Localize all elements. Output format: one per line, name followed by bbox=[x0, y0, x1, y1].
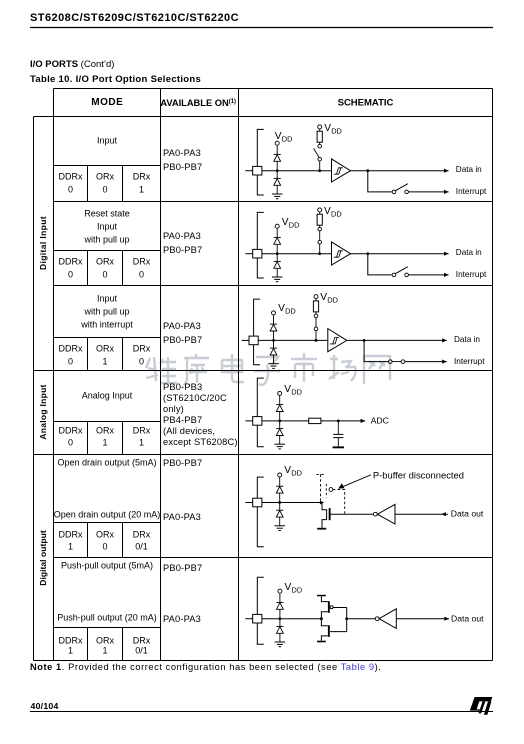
row2 pull-up resistor: wire to pad line bbox=[319, 244, 321, 254]
N-buffer output transistor Q1 (NMOS) bbox=[322, 503, 327, 510]
open-drain pin: pad square bbox=[253, 498, 262, 507]
analog pin: pin bracket bbox=[257, 378, 264, 447]
node: gate junction dot bbox=[345, 617, 348, 620]
row1 pin: wire stub to pad bbox=[245, 170, 252, 172]
wire: pad to series resistor bbox=[262, 420, 309, 422]
PMOS gate wire bbox=[333, 607, 347, 609]
arrow to Interrupt (row 2) bbox=[444, 273, 449, 277]
row2 pin: pad square bbox=[253, 249, 262, 258]
row1 ESD diodes: wire VDD to upper diode bbox=[276, 145, 278, 154]
open-drain ESD diodes: wire VDD to upper diode bbox=[279, 477, 281, 486]
inverter U2 driving output gates bbox=[375, 617, 379, 621]
row3 pull-up resistor: wire to pad line bbox=[315, 331, 317, 341]
row2 pull-up resistor: wire bbox=[319, 225, 321, 227]
row3 pull-up resistor: junction dot bbox=[315, 339, 318, 342]
push-pull ESD diodes: junction dot on pad line bbox=[279, 617, 282, 620]
series resistor to ADC bbox=[309, 418, 321, 423]
row1 ESD diodes: VDD supply circle bbox=[275, 141, 279, 145]
disconnected P-buffer (dashed PMOS) bbox=[316, 474, 324, 500]
wire: pad line to NMOS drain bbox=[262, 502, 321, 504]
row3 pull-up resistor: VDD supply circle bbox=[314, 295, 318, 299]
sub-column separators bbox=[87, 166, 89, 202]
row3 ESD diodes: wire diode to pad line bbox=[273, 331, 275, 348]
arrow to Interrupt (row 1) bbox=[444, 190, 449, 194]
row2 pull-up resistor: wire bbox=[319, 212, 321, 215]
open-drain ESD diodes: ground symbol bbox=[274, 525, 285, 527]
capacitor ground bar bbox=[333, 446, 344, 448]
row3 pull-up resistor: wire bbox=[315, 298, 317, 301]
push-pull ESD diodes: wire diode to pad line bbox=[279, 609, 281, 626]
row3 interrupt switch: interrupt switch contact circles bbox=[389, 360, 393, 364]
wire: Data out to inverter bbox=[396, 618, 449, 620]
analog ESD diodes: junction dot on pad line bbox=[278, 420, 281, 423]
row3 ESD diodes: ground symbol bbox=[268, 363, 279, 365]
node: data/interrupt branch junction (row 1) bbox=[366, 169, 369, 172]
open-drain ESD diodes: upper protection diode to VDD bbox=[276, 485, 283, 487]
PMOS Q2 channel bar bbox=[328, 601, 330, 613]
row3 pin: pad square bbox=[249, 336, 258, 345]
analog pin: pad square bbox=[253, 417, 262, 426]
push-pull ESD diodes: lower protection diode to ground bbox=[276, 625, 283, 627]
ground rail bar bbox=[317, 641, 326, 643]
row1 pull-up resistor: switch contact circle (top) bbox=[318, 144, 322, 148]
row1 ESD diodes: junction dot on pad line bbox=[276, 169, 279, 172]
title underline bbox=[30, 27, 493, 29]
open-drain pin: pin bracket bbox=[257, 477, 264, 547]
watermark (decorative, approximated) bbox=[146, 353, 390, 386]
row1 pull-up resistor: wire bbox=[319, 129, 321, 132]
row2 pin: pin bracket bbox=[257, 212, 264, 278]
gate bus vertical wire bbox=[346, 608, 348, 632]
arrow to Interrupt (row 3) bbox=[442, 360, 447, 364]
row3 input buffer: Schmitt trigger buffer bbox=[328, 329, 347, 352]
row2 pull-up resistor: switch contact circle (top) bbox=[318, 227, 322, 231]
P-buffer gate bubble bbox=[329, 488, 333, 492]
wire: pad to buffer input (row 3) bbox=[258, 339, 328, 341]
row1 pin: pin bracket bbox=[257, 129, 264, 195]
row3 ESD diodes: upper protection diode to VDD bbox=[270, 323, 277, 325]
open-drain pin: wire stub to pad bbox=[245, 502, 252, 504]
row2 ESD diodes: wire diode to pad line bbox=[276, 244, 278, 261]
row2 ESD diodes: lower protection diode to ground bbox=[274, 260, 281, 262]
row3 ESD diodes: wire VDD to upper diode bbox=[273, 315, 275, 324]
wire: switch to Interrupt (row 2) bbox=[408, 274, 448, 276]
analog ESD diodes: upper protection diode to VDD bbox=[276, 404, 283, 406]
wire: buffer output to Data in (row 1) bbox=[351, 170, 449, 172]
row1 ESD diodes: lower protection diode to ground bbox=[274, 177, 281, 179]
row2 interrupt switch: open blade bbox=[395, 267, 407, 274]
row1 pull-up resistor: VDD supply circle bbox=[318, 125, 322, 129]
row3 pull-up resistor: wire bbox=[315, 312, 317, 314]
row3 interrupt switch: closed blade bbox=[392, 361, 401, 363]
row1 interrupt switch: interrupt switch contact circles bbox=[392, 190, 396, 194]
row1 ESD diodes: ground symbol bbox=[272, 193, 283, 195]
row2 ESD diodes: junction dot on pad line bbox=[276, 252, 279, 255]
callout arrow: P-buffer disconnected bbox=[341, 475, 371, 488]
open-drain ESD diodes: lower protection diode to ground bbox=[276, 509, 283, 511]
row3 ESD diodes: VDD supply circle bbox=[272, 311, 276, 315]
dashed gate wire of P-buffer bbox=[333, 490, 345, 514]
push-pull pin: pad square bbox=[253, 614, 262, 623]
wire: pad to buffer input (row 2) bbox=[262, 253, 332, 255]
NMOS Q3 channel bar bbox=[328, 625, 330, 637]
row2 ESD diodes: VDD supply circle bbox=[275, 224, 279, 228]
arrow to ADC bbox=[361, 419, 366, 423]
analog ESD diodes: lower protection diode to ground bbox=[276, 428, 283, 430]
row3 pull-up resistor: pull-up resistor bbox=[313, 301, 318, 312]
arrow from Data out (open drain) bbox=[441, 512, 446, 516]
wire: switch to Interrupt (row 1) bbox=[408, 191, 448, 193]
VDD rail bar bbox=[317, 595, 326, 597]
NMOS source to ground bbox=[322, 520, 327, 528]
row1 pin: pad square bbox=[253, 166, 262, 175]
wire: Data out to inverter bbox=[395, 513, 448, 515]
row1 pull-up resistor: pull-up resistor bbox=[317, 131, 322, 142]
row2 input buffer: Schmitt trigger buffer bbox=[332, 242, 351, 265]
analog ESD diodes: wire VDD to upper diode bbox=[279, 395, 281, 404]
push-pull pin: pin bracket bbox=[257, 577, 264, 644]
row2 ESD diodes: upper protection diode to VDD bbox=[274, 236, 281, 238]
inverter U1 driving N-buffer gate bbox=[374, 512, 378, 516]
DDRx/ORx/DRx sub-row separators bbox=[54, 165, 161, 167]
footer rule bbox=[30, 711, 493, 713]
row1 interrupt switch: open blade bbox=[395, 184, 407, 191]
row2 pull-up resistor: VDD supply circle bbox=[318, 208, 322, 212]
wire: buffer output to Data in (row 3) bbox=[347, 339, 447, 341]
wire: pad line to output drains bbox=[262, 618, 322, 620]
row1 ESD diodes: wire diode to pad line bbox=[276, 161, 278, 178]
analog ESD diodes: wire diode to pad line bbox=[279, 412, 281, 429]
row1 input buffer: Schmitt trigger buffer bbox=[332, 159, 351, 182]
row separator lines bbox=[54, 201, 493, 203]
row3 pin: wire stub to pad bbox=[242, 339, 249, 341]
NMOS gate wire bbox=[330, 631, 347, 633]
node: output junction dot bbox=[320, 617, 323, 620]
node: data/interrupt branch junction (row 3) bbox=[363, 339, 366, 342]
push-pull ESD diodes: wire VDD to upper diode bbox=[279, 593, 281, 602]
analog pin: wire stub to pad bbox=[245, 420, 252, 422]
wire: junction down to sampling capacitor bbox=[337, 421, 339, 434]
PMOS Q2 drain to output node bbox=[321, 612, 328, 619]
PMOS Q2 source from VDD bbox=[321, 596, 328, 601]
NMOS Q3 drain from output node bbox=[321, 619, 328, 626]
row1 pull-up resistor: switch contact circle (bottom) bbox=[318, 157, 322, 161]
arrow to Data in (row 2) bbox=[444, 252, 449, 256]
row3 pull-up resistor: switch contact circle (bottom) bbox=[314, 327, 318, 331]
row3 ESD diodes: junction dot on pad line bbox=[272, 339, 275, 342]
small arrowhead at drain node bbox=[320, 501, 324, 505]
sampling capacitor bbox=[333, 433, 343, 435]
table outer & header borders bbox=[54, 88, 493, 90]
row1 pull-up resistor: wire bbox=[319, 142, 321, 144]
node: capacitor junction bbox=[337, 420, 340, 423]
arrow to Data in (row 3) bbox=[442, 338, 447, 342]
row1 pull-up resistor: switch open blade bbox=[314, 148, 320, 157]
push-pull pin: wire stub to pad bbox=[245, 618, 252, 620]
wire: resistor to ADC bbox=[321, 420, 365, 422]
row2 interrupt switch: interrupt switch contact circles bbox=[392, 273, 396, 277]
row2 ESD diodes: ground symbol bbox=[272, 276, 283, 278]
ground bar bbox=[317, 528, 326, 530]
open-drain ESD diodes: VDD supply circle bbox=[278, 473, 282, 477]
arrow to Data in (row 1) bbox=[444, 169, 449, 173]
row3 pin: pin bracket bbox=[254, 299, 261, 365]
row2 pull-up resistor: pull-up resistor bbox=[317, 214, 322, 225]
NMOS Q3 source to ground bbox=[321, 636, 328, 641]
row1 pull-up resistor: junction dot bbox=[318, 169, 321, 172]
row1 ESD diodes: upper protection diode to VDD bbox=[274, 153, 281, 155]
row2 ESD diodes: wire VDD to upper diode bbox=[276, 228, 278, 237]
row3 ESD diodes: lower protection diode to ground bbox=[270, 347, 277, 349]
row2 pin: wire stub to pad bbox=[245, 253, 252, 255]
wire: pad to buffer input (row 1) bbox=[262, 170, 332, 172]
open-drain ESD diodes: junction dot on pad line bbox=[278, 501, 281, 504]
wire: switch to Interrupt (row 3) bbox=[405, 361, 447, 363]
row3 pull-up resistor: switch contact circle (top) bbox=[314, 314, 318, 318]
push-pull ESD diodes: ground symbol bbox=[275, 641, 286, 643]
PMOS gate bubble bbox=[330, 606, 333, 609]
analog ESD diodes: ground symbol bbox=[274, 443, 285, 445]
arrow at Data out (push-pull) bbox=[444, 617, 449, 621]
analog ESD diodes: VDD supply circle bbox=[278, 391, 282, 395]
NMOS gate wire to inverter bbox=[331, 513, 374, 515]
row2 pull-up resistor: switch contact circle (bottom) bbox=[318, 240, 322, 244]
push-pull ESD diodes: upper protection diode to VDD bbox=[276, 601, 283, 603]
wire: buffer output to Data in (row 2) bbox=[351, 253, 449, 255]
row1 pull-up resistor: wire to pad line bbox=[319, 161, 321, 171]
row2 pull-up resistor: junction dot bbox=[318, 252, 321, 255]
row3 pull-up resistor: switch closed blade bbox=[315, 318, 317, 327]
node: data/interrupt branch junction (row 2) bbox=[366, 252, 369, 255]
wire: branch down to interrupt switch (row 1) bbox=[368, 171, 392, 192]
wire: inverter output to gates bbox=[347, 618, 376, 620]
open-drain ESD diodes: wire diode to pad line bbox=[279, 493, 281, 510]
push-pull ESD diodes: VDD supply circle bbox=[278, 589, 282, 593]
ST logo bbox=[470, 697, 493, 711]
wire: branch down to interrupt switch (row 3) bbox=[364, 340, 388, 361]
wire: branch down to interrupt switch (row 2) bbox=[368, 254, 392, 275]
row2 pull-up resistor: switch closed blade bbox=[319, 231, 321, 240]
